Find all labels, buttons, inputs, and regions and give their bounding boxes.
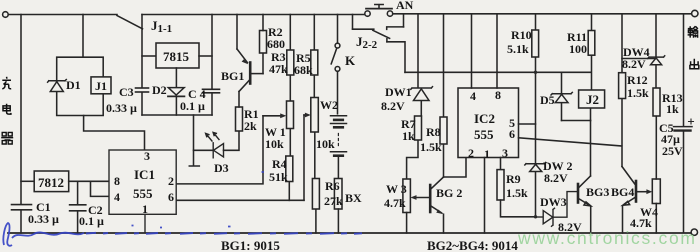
svg-text:1.5k: 1.5k	[506, 186, 528, 200]
svg-text:0.33 µ: 0.33 µ	[28, 212, 59, 226]
top rail right segment	[393, 13, 692, 15]
diode D1	[48, 80, 67, 92]
hanzi 器 (charger label)	[1, 132, 13, 144]
wire: R5/W2 column	[314, 15, 316, 234]
wire: D1/J1 loop	[57, 57, 103, 115]
wire: IC2 pin1 to ground	[484, 158, 486, 234]
svg-text:7815: 7815	[163, 49, 190, 64]
resistor R13	[653, 88, 660, 116]
wire: right regulator drop with C4	[211, 15, 213, 90]
svg-text:3: 3	[144, 149, 150, 163]
resistor R9	[497, 170, 504, 200]
svg-text:555: 555	[133, 186, 153, 201]
capacitor C1	[12, 204, 32, 206]
wire: R2 to BG1 base	[262, 53, 264, 74]
svg-text:W2: W2	[320, 98, 338, 112]
svg-text:8.2V: 8.2V	[544, 171, 568, 185]
wire: IC1 pin6 line	[176, 199, 304, 201]
wire: IC2 pin5	[519, 123, 536, 125]
svg-text:2: 2	[168, 174, 174, 188]
wire: BX to ground rail	[337, 209, 339, 233]
battery BX cells	[331, 116, 347, 179]
svg-text:J1-1: J1-1	[151, 18, 172, 35]
resistor R1	[236, 107, 243, 131]
svg-text:AN: AN	[396, 0, 414, 12]
svg-text:W 3: W 3	[386, 182, 407, 196]
svg-text:3: 3	[502, 146, 508, 160]
capacitor C4	[203, 88, 220, 90]
resistor R3	[287, 50, 294, 75]
regulator 7812 box	[34, 171, 68, 192]
svg-text:1k: 1k	[666, 102, 679, 116]
svg-text:www.cntronics.com: www.cntronics.com	[517, 228, 697, 248]
wire: 7815 input drop with C3	[141, 15, 143, 88]
svg-text:1: 1	[142, 202, 148, 216]
wire: ground stub with end bar	[189, 115, 199, 166]
wire: 7815 ground pin to D2	[175, 68, 177, 87]
svg-text:R4: R4	[272, 157, 287, 171]
svg-text:C3: C3	[119, 85, 134, 99]
wire: W3 bottom	[406, 213, 408, 234]
svg-text:51k: 51k	[269, 170, 288, 184]
wire: 7812 output to IC1 pin8	[69, 180, 109, 182]
bottom ground rail	[8, 232, 691, 234]
wire: R8 column	[443, 14, 445, 177]
wire: regulator ground bus	[142, 114, 212, 116]
svg-text:0.33 µ: 0.33 µ	[106, 101, 137, 115]
svg-text:BG1: BG1	[221, 69, 244, 83]
svg-text:68k: 68k	[294, 63, 313, 77]
svg-text:R12: R12	[627, 73, 648, 87]
wire: 7815 right pin	[199, 55, 212, 57]
svg-text:K: K	[345, 53, 356, 68]
svg-text:2k: 2k	[244, 119, 257, 133]
svg-text:7812: 7812	[38, 175, 64, 190]
svg-text:DW3: DW3	[540, 195, 567, 209]
capacitor C5 (electrolytic)	[674, 119, 694, 131]
wire: IC1 pin1 to ground	[144, 214, 146, 233]
svg-text:10k: 10k	[316, 137, 335, 151]
svg-text:IC2: IC2	[474, 111, 495, 126]
svg-text:555: 555	[474, 127, 494, 142]
svg-text:4: 4	[470, 89, 476, 103]
resistor R4	[286, 156, 293, 182]
wire: LED row left	[194, 149, 214, 151]
resistor R5	[311, 50, 318, 75]
svg-text:D3: D3	[214, 161, 229, 175]
svg-text:R9: R9	[506, 172, 521, 186]
svg-text:R8: R8	[426, 125, 441, 139]
wire: IC1 pin4 link	[91, 181, 110, 196]
svg-text:D2: D2	[152, 83, 167, 97]
IC1 555 box	[109, 150, 176, 233]
wire: R12 column	[621, 14, 623, 167]
switch K	[331, 15, 340, 114]
transistor BG4 (9014)	[622, 167, 652, 234]
junction dot R10 bottom	[534, 71, 537, 74]
top rail left segment	[8, 14, 117, 16]
svg-text:R10: R10	[511, 28, 532, 42]
svg-text:8: 8	[114, 174, 120, 188]
svg-text:BG1: 9015: BG1: 9015	[221, 238, 280, 252]
svg-text:1.5k: 1.5k	[420, 140, 442, 154]
svg-text:0.1 µ: 0.1 µ	[79, 214, 104, 228]
relay coil J1 box	[91, 77, 111, 94]
blue pen scribble on ground rail	[3, 172, 362, 246]
svg-text:8: 8	[495, 88, 501, 102]
svg-text:25V: 25V	[662, 144, 683, 158]
capacitor C2	[70, 204, 86, 206]
svg-text:BG2~BG4: 9014: BG2~BG4: 9014	[427, 238, 518, 252]
svg-text:BG3: BG3	[586, 185, 609, 199]
terminal bottom-right	[691, 229, 697, 235]
wire: W4 bottom	[655, 204, 657, 234]
svg-text:47k: 47k	[269, 62, 288, 76]
wire: R1 to BG1 collector	[238, 92, 240, 108]
svg-text:BG 2: BG 2	[436, 186, 462, 200]
hanzi 充 (charger label)	[2, 77, 11, 89]
svg-text:R6: R6	[325, 179, 340, 193]
resistor R11	[588, 31, 595, 56]
svg-text:8.2V: 8.2V	[622, 57, 646, 71]
relay coil J2 box	[579, 90, 605, 108]
wire: DW4/R13/W4 column	[655, 14, 657, 179]
svg-text:6: 6	[509, 127, 515, 141]
wire: C2 riser	[77, 181, 79, 204]
svg-text:IC1: IC1	[134, 167, 155, 182]
svg-text:8.2V: 8.2V	[381, 99, 405, 113]
battery holder BX box	[334, 179, 342, 210]
W2 wiper arrow	[304, 114, 308, 116]
wire: output right edge with C5	[683, 14, 685, 232]
svg-text:5.1k: 5.1k	[507, 42, 529, 56]
svg-text:D5: D5	[540, 93, 555, 107]
svg-text:27k: 27k	[324, 194, 343, 208]
regulator 7815 box	[156, 43, 199, 68]
zener D5	[551, 92, 572, 102]
resistor R8	[440, 117, 447, 144]
svg-text:2: 2	[468, 146, 474, 160]
svg-text:100: 100	[569, 42, 587, 56]
svg-text:6: 6	[168, 190, 174, 204]
svg-text:4: 4	[114, 190, 120, 204]
resistor R7	[415, 116, 422, 140]
W1 wiper arrow	[263, 115, 283, 117]
resistor R2	[260, 31, 267, 54]
resistor R10	[532, 30, 539, 57]
svg-text:D1: D1	[66, 78, 81, 92]
svg-text:1: 1	[484, 147, 490, 161]
wire: IC2 pin3 to R9	[500, 158, 502, 170]
potentiometer W3	[403, 179, 411, 213]
W3 wiper arrow	[414, 197, 430, 199]
svg-text:0.1 µ: 0.1 µ	[180, 99, 205, 113]
hanzi 出 (output label)	[690, 59, 699, 69]
wire: 7812 input tap	[21, 180, 34, 182]
resistor R6	[312, 179, 319, 210]
potentiometer W2	[311, 98, 319, 133]
relay switch J2-2	[353, 14, 406, 73]
diode D2	[168, 88, 184, 97]
wire: R10/DW2 column	[535, 14, 537, 217]
wire: W1 wiper to IC1 pin2	[176, 116, 263, 184]
wire: IC2 pin8 riser	[496, 14, 498, 88]
LED D3	[206, 132, 224, 157]
top rail middle segment	[142, 14, 365, 16]
wire: riser to D1/J1 loop	[82, 15, 84, 58]
svg-text:BG4: BG4	[611, 185, 634, 199]
wire: D5 branch	[561, 72, 563, 120]
wire: R3/W1/R4 column	[289, 15, 290, 201]
wire: R12 to DW4 link	[622, 58, 656, 60]
transistor BG3 (9014)	[578, 121, 591, 234]
wire: IC2 pin2 to BG2 collector	[444, 158, 467, 178]
wire: D5/J2 bottom link	[562, 120, 591, 122]
zener DW3	[536, 192, 577, 227]
svg-text:1k: 1k	[402, 129, 415, 143]
terminal top-right	[692, 10, 698, 16]
svg-text:BX: BX	[345, 191, 362, 205]
zener DW1	[411, 87, 433, 101]
wire: switched supply bus	[405, 71, 591, 73]
wire: IC2 pin4 riser	[471, 14, 473, 88]
potentiometer W1	[287, 101, 294, 129]
capacitor C3	[136, 87, 149, 89]
svg-text:680: 680	[267, 37, 285, 51]
wire: R11/J2 column	[591, 14, 592, 121]
terminal top-left	[3, 12, 9, 18]
svg-text:4.7k: 4.7k	[384, 196, 406, 210]
pushbutton AN	[365, 5, 393, 17]
zener DW2	[525, 162, 546, 171]
svg-text:DW1: DW1	[385, 85, 412, 99]
wire: DW1/R7 column	[407, 14, 422, 179]
IC2 555 box	[458, 88, 519, 158]
wire: LED to R1	[224, 131, 240, 150]
zener DW4	[648, 56, 665, 65]
junction dot DW2 bottom node	[534, 215, 537, 218]
transistor BG2 (9014)	[430, 177, 444, 233]
transistor BG1 (9015)	[237, 15, 263, 92]
wire: left input drop to 7812 and C1	[20, 15, 22, 205]
svg-text:J2: J2	[586, 92, 599, 107]
wire: R9 bottom to DW2/DW3 node	[501, 200, 537, 217]
svg-text:1.5k: 1.5k	[627, 86, 649, 100]
hanzi 输 (output label)	[688, 26, 698, 38]
potentiometer W4	[652, 179, 660, 204]
svg-text:10k: 10k	[265, 137, 284, 151]
switch J1-1 blade	[117, 16, 143, 29]
wire: W2 wiper to pin6 line	[303, 115, 305, 200]
resistor R12	[619, 73, 626, 99]
svg-text:J2-2: J2-2	[356, 34, 378, 51]
hanzi 电 (charger label)	[3, 104, 11, 114]
svg-text:J1: J1	[95, 79, 107, 93]
wire: loop bottom to IC1 pin3	[84, 116, 145, 151]
wire: IC2 pin6 sampling line	[519, 138, 622, 146]
wire: R2 top	[262, 15, 264, 31]
wire: 7815 left pin	[142, 55, 156, 57]
